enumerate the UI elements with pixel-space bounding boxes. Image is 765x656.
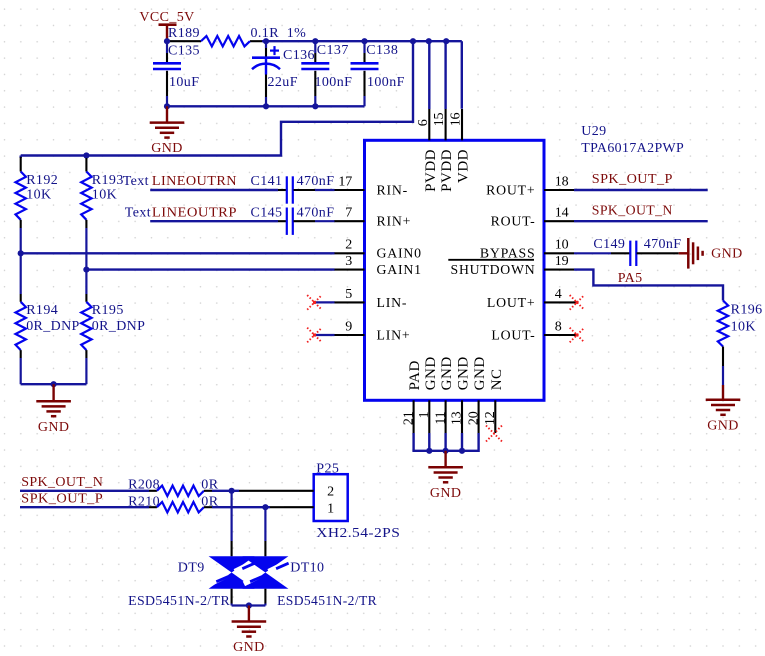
svg-text:16: 16 — [449, 113, 464, 127]
wire VDD row corner to R192 — [20, 156, 22, 159]
resistor R195 — [81, 270, 145, 385]
svg-text:14: 14 — [555, 206, 569, 221]
net label SPK_OUT_N (right) — [592, 203, 673, 218]
pin 19 SHUTDOWN (right) — [448, 254, 574, 277]
pin 1 GND (bottom) — [417, 356, 439, 433]
pin 6 PVDD (top) — [416, 109, 439, 192]
connector P25 XH2.54-2PS — [284, 461, 400, 541]
resistor R208 — [128, 477, 219, 496]
junction top pin 6 — [426, 38, 432, 44]
pin 7 RIN+ (left) — [334, 206, 411, 229]
svg-text:C135: C135 — [168, 44, 200, 59]
svg-text:10K: 10K — [731, 320, 756, 335]
svg-text:7: 7 — [345, 206, 352, 221]
svg-text:TPA6017A2PWP: TPA6017A2PWP — [581, 141, 684, 156]
svg-text:GND: GND — [456, 356, 472, 390]
pin 15 PVDD (top) — [432, 109, 455, 192]
diode DT10 ESD5451N-2/TR — [242, 507, 377, 609]
wire diode ground bus — [232, 604, 266, 606]
svg-text:21: 21 — [401, 411, 416, 425]
wire LINEOUTRP — [150, 220, 278, 222]
junction R193 top — [83, 152, 89, 158]
wire LINEOUTRN — [150, 189, 278, 191]
ground GND (diodes) — [232, 606, 267, 656]
junction top pin 15 — [443, 38, 449, 44]
svg-text:20: 20 — [466, 411, 481, 425]
svg-text:11: 11 — [433, 411, 448, 424]
svg-text:ESD5451N-2/TR: ESD5451N-2/TR — [128, 594, 230, 609]
junction SPK_OUT_N / DT9 — [229, 488, 235, 494]
svg-text:10uF: 10uF — [169, 75, 199, 90]
svg-text:GAIN1: GAIN1 — [377, 262, 422, 277]
wire GAIN0 net — [21, 252, 335, 254]
node Text label (RN) — [123, 174, 149, 189]
svg-text:VCC_5V: VCC_5V — [139, 10, 194, 25]
svg-text:100nF: 100nF — [367, 75, 405, 90]
pin 8 LOUT- (right) — [491, 319, 574, 342]
pin 9 LIN+ (left) — [334, 319, 410, 342]
wire SPK_OUT_P to R210 — [20, 506, 149, 508]
svg-text:GND: GND — [38, 420, 70, 435]
svg-text:SPK_OUT_P: SPK_OUT_P — [21, 492, 103, 507]
no-connect X on pin 12 — [486, 426, 502, 442]
no-connect X on pin 4 LOUT+ — [570, 295, 585, 310]
pin 16 VDD (top) — [449, 109, 472, 183]
junction cap bus C137 — [312, 103, 318, 109]
net label LINEOUTRP — [152, 205, 237, 220]
svg-text:GND: GND — [472, 356, 488, 390]
pin 3 GAIN1 (left) — [334, 254, 422, 277]
junction gnd bus pin 1 — [426, 448, 432, 454]
svg-text:100nF: 100nF — [315, 75, 353, 90]
svg-text:R195: R195 — [92, 303, 124, 318]
pin 18 ROUT+ (right) — [486, 174, 574, 197]
net label SPK_OUT_P (bottom) — [21, 492, 103, 507]
pin 17 RIN- (left) — [334, 174, 408, 197]
diode DT9 ESD5451N-2/TR — [128, 491, 255, 609]
junction R193/GAIN1 — [83, 267, 89, 273]
pin 4 LOUT+ (right) — [487, 287, 574, 310]
ground GND (C149, sideways) — [679, 238, 743, 269]
resistor R193 — [81, 156, 124, 270]
power symbol VCC_5V — [139, 10, 194, 41]
pin 5 LIN- (left) — [334, 287, 407, 310]
wire R194/R195 ground bus — [21, 383, 87, 385]
svg-text:SHUTDOWN: SHUTDOWN — [451, 262, 536, 277]
svg-text:ROUT-: ROUT- — [491, 214, 536, 229]
pin 13 GND (bottom) — [450, 356, 472, 433]
wire capacitor ground bus — [167, 105, 365, 107]
ground GND (IC) — [428, 451, 463, 501]
svg-text:Text: Text — [123, 174, 149, 189]
capacitor C149 — [574, 237, 681, 266]
svg-text:0R_DNP: 0R_DNP — [92, 319, 146, 334]
ground GND (capacitor bank) — [150, 106, 185, 156]
ground GND (R194/R195) — [36, 384, 71, 435]
svg-text:2: 2 — [327, 484, 334, 499]
resistor R192 — [16, 157, 59, 253]
svg-text:R196: R196 — [731, 303, 763, 318]
svg-text:XH2.54-2PS: XH2.54-2PS — [316, 526, 400, 541]
svg-text:VDD: VDD — [456, 149, 472, 183]
junction cap bus C136 — [263, 103, 269, 109]
svg-text:C136: C136 — [283, 48, 315, 63]
capacitor C138 — [351, 41, 405, 106]
svg-text:C138: C138 — [366, 43, 398, 58]
svg-text:R194: R194 — [26, 303, 58, 318]
wire R208 to P25 pin 2 — [212, 490, 284, 492]
wire R210 to P25 pin 1 — [212, 506, 284, 508]
no-connect X on pin 8 LOUT- — [570, 328, 585, 343]
junction C136 top — [263, 38, 269, 44]
wire GAIN1 net — [86, 268, 334, 270]
svg-text:BYPASS: BYPASS — [480, 246, 536, 261]
svg-text:17: 17 — [338, 174, 352, 189]
junction SPK_OUT_P / DT10 — [262, 504, 268, 510]
capacitor C141 — [251, 174, 335, 204]
junction cap bus C135 — [164, 103, 170, 109]
svg-text:PA5: PA5 — [618, 271, 643, 286]
resistor R196 — [718, 301, 763, 386]
svg-text:C137: C137 — [317, 43, 349, 58]
no-connect X on pin 5 LIN- — [307, 295, 334, 310]
junction C138 top — [361, 38, 367, 44]
svg-text:6: 6 — [416, 119, 431, 126]
pin 11 GND (bottom) — [433, 356, 455, 433]
capacitor C145 — [251, 205, 335, 235]
svg-text:GND: GND — [233, 640, 265, 655]
svg-text:22uF: 22uF — [268, 75, 298, 90]
svg-text:GND: GND — [439, 356, 455, 390]
svg-text:GND: GND — [430, 486, 462, 501]
svg-text:12: 12 — [483, 411, 498, 425]
capacitor C135 — [153, 41, 200, 106]
junction gnd bus pin 13 — [459, 448, 465, 454]
wire VCC top rail — [167, 41, 462, 109]
pin 21 PAD (bottom) — [401, 360, 423, 433]
wire SHUTDOWN to PA5/R196 — [574, 270, 723, 301]
net label SPK_OUT_P (right) — [592, 172, 673, 187]
svg-text:LINEOUTRP: LINEOUTRP — [152, 205, 237, 220]
svg-text:NC: NC — [489, 368, 505, 390]
resistor R194 — [16, 253, 80, 384]
wire SPK_OUT_N to R208 — [20, 490, 149, 492]
svg-text:15: 15 — [432, 112, 447, 126]
wire ROUT- net — [574, 220, 708, 222]
svg-text:R193: R193 — [92, 173, 124, 188]
svg-text:C145: C145 — [251, 205, 283, 220]
svg-text:RIN+: RIN+ — [377, 214, 412, 229]
svg-text:LOUT+: LOUT+ — [487, 295, 536, 310]
ground GND (R196) — [706, 385, 741, 433]
svg-text:LIN-: LIN- — [377, 295, 408, 310]
resistor R189 — [168, 26, 306, 47]
junction C137 top — [312, 38, 318, 44]
net label SPK_OUT_N (bottom) — [21, 475, 103, 490]
svg-text:8: 8 — [555, 319, 562, 334]
svg-text:10K: 10K — [92, 188, 117, 203]
svg-text:Text: Text — [125, 205, 151, 220]
pin 12 NC (bottom) — [483, 368, 505, 433]
svg-text:GND: GND — [423, 356, 439, 390]
svg-text:C141: C141 — [251, 174, 283, 189]
svg-text:0R_DNP: 0R_DNP — [26, 319, 79, 334]
svg-text:GAIN0: GAIN0 — [377, 246, 422, 261]
svg-text:LIN+: LIN+ — [377, 327, 411, 342]
svg-text:RIN-: RIN- — [377, 182, 409, 197]
svg-text:18: 18 — [555, 174, 569, 189]
svg-text:LOUT-: LOUT- — [491, 327, 535, 342]
capacitor C137 — [301, 41, 352, 106]
svg-text:GND: GND — [711, 247, 743, 262]
svg-text:SPK_OUT_P: SPK_OUT_P — [592, 172, 673, 187]
capacitor C136 (polarized) — [252, 41, 315, 106]
junction diode gnd — [246, 602, 252, 608]
svg-text:GND: GND — [707, 418, 739, 433]
svg-text:5: 5 — [345, 287, 352, 302]
wire VDD sense to resistors — [21, 41, 413, 155]
op-amp U29 TPA6017A2PWP body — [365, 124, 685, 400]
svg-text:470nF: 470nF — [644, 237, 682, 252]
svg-text:19: 19 — [555, 254, 569, 269]
svg-text:LINEOUTRN: LINEOUTRN — [152, 174, 237, 189]
wire IC ground bus — [414, 433, 479, 451]
svg-text:10: 10 — [555, 238, 569, 253]
svg-text:C149: C149 — [593, 237, 625, 252]
junction R192/GAIN0 — [18, 250, 24, 256]
junction R194/R195 gnd — [51, 381, 57, 387]
net label PA5 — [618, 271, 643, 286]
svg-text:PVDD: PVDD — [423, 149, 439, 192]
svg-text:GND: GND — [151, 141, 183, 156]
net label LINEOUTRN — [152, 174, 237, 189]
wire top pin feeders — [429, 41, 445, 109]
svg-text:DT9: DT9 — [178, 560, 205, 575]
pin 10 BYPASS (right) — [480, 238, 574, 261]
svg-text:3: 3 — [345, 254, 352, 269]
svg-text:470nF: 470nF — [297, 205, 335, 220]
no-connect X on pin 9 LIN+ — [307, 328, 334, 343]
wire ROUT+ net — [574, 189, 708, 191]
svg-text:1: 1 — [327, 502, 334, 517]
svg-text:13: 13 — [450, 411, 465, 425]
junction VDD rail branch — [410, 38, 416, 44]
pin 14 ROUT- (right) — [491, 206, 574, 229]
svg-text:2: 2 — [345, 238, 352, 253]
svg-text:9: 9 — [345, 319, 352, 334]
pin 20 GND (bottom) — [466, 356, 488, 433]
svg-text:10K: 10K — [26, 188, 51, 203]
svg-text:R189: R189 — [168, 26, 200, 41]
svg-text:U29: U29 — [581, 124, 606, 139]
svg-text:SPK_OUT_N: SPK_OUT_N — [21, 475, 103, 490]
svg-text:ROUT+: ROUT+ — [486, 182, 535, 197]
svg-text:PAD: PAD — [407, 360, 423, 390]
junction at VCC/C135 — [164, 38, 170, 44]
svg-text:SPK_OUT_N: SPK_OUT_N — [592, 203, 673, 218]
svg-text:1: 1 — [417, 411, 432, 418]
svg-text:DT10: DT10 — [290, 560, 324, 575]
svg-text:4: 4 — [555, 287, 562, 302]
svg-text:470nF: 470nF — [297, 174, 335, 189]
resistor R210 — [128, 495, 219, 513]
svg-text:R192: R192 — [26, 173, 58, 188]
svg-text:0.1R 1%: 0.1R 1% — [251, 26, 307, 41]
pin 2 GAIN0 (left) — [334, 238, 422, 261]
node Text label (RP) — [125, 205, 151, 220]
junction gnd bus pin 11 — [443, 448, 449, 454]
svg-text:PVDD: PVDD — [439, 149, 455, 192]
svg-text:ESD5451N-2/TR: ESD5451N-2/TR — [277, 594, 377, 609]
